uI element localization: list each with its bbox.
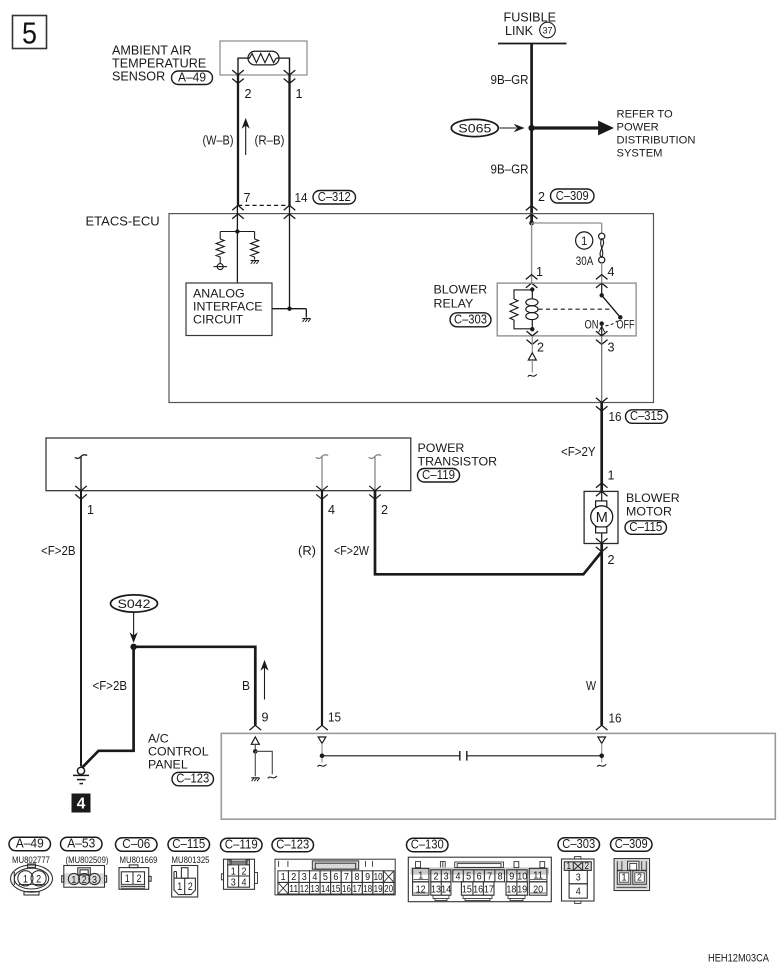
svg-text:1: 1 xyxy=(125,873,130,885)
relay pin 2 dangling branch xyxy=(531,336,533,353)
svg-text:2: 2 xyxy=(188,881,193,893)
svg-text:2: 2 xyxy=(537,340,544,355)
wire relay switch to pin 3 xyxy=(601,324,603,336)
connector arrows at ETACS power entry xyxy=(526,206,538,211)
connector arrows into blower relay xyxy=(526,275,538,280)
wire (R) transistor pin4 down xyxy=(321,491,323,726)
svg-text:C–119: C–119 xyxy=(225,838,258,852)
svg-text:ETACS-ECU: ETACS-ECU xyxy=(86,214,160,229)
svg-text:C–303: C–303 xyxy=(562,837,595,851)
junction node S042 xyxy=(130,644,136,650)
svg-text:1: 1 xyxy=(177,881,182,893)
svg-text:1: 1 xyxy=(296,86,303,101)
wire 9B-GR from fusible link xyxy=(530,43,533,223)
svg-text:18: 18 xyxy=(506,884,516,896)
arrow from S065 to junction xyxy=(500,127,517,129)
svg-text:S065: S065 xyxy=(458,121,491,135)
motor brush top xyxy=(596,501,607,507)
svg-text:17: 17 xyxy=(484,884,494,896)
connector label C-130 strip xyxy=(407,838,449,852)
svg-text:C–115: C–115 xyxy=(172,837,205,851)
connector face C-123 xyxy=(275,859,395,895)
connector label C-303 relay xyxy=(450,313,491,327)
svg-text:2: 2 xyxy=(538,189,545,204)
svg-text:<F>2Y: <F>2Y xyxy=(561,444,596,459)
svg-text:2: 2 xyxy=(291,872,296,883)
motor brush bottom xyxy=(596,527,607,533)
connector label C-115 strip xyxy=(168,838,210,852)
wire pin14 internal xyxy=(289,205,291,308)
svg-text:3: 3 xyxy=(92,874,97,886)
node pin 15 xyxy=(320,754,325,759)
node pin7 branch xyxy=(235,229,239,233)
svg-text:4: 4 xyxy=(77,796,86,813)
svg-text:SYSTEM: SYSTEM xyxy=(617,148,663,160)
connector label C-123 panel xyxy=(172,772,214,786)
connector face C-309 xyxy=(614,859,649,891)
panel capacitor wire left xyxy=(322,755,460,757)
svg-text:16: 16 xyxy=(473,884,483,896)
svg-text:2: 2 xyxy=(245,86,252,101)
svg-text:2: 2 xyxy=(82,874,87,886)
svg-text:9B–GR: 9B–GR xyxy=(491,73,529,87)
svg-text:3: 3 xyxy=(608,340,615,355)
svg-text:C–315: C–315 xyxy=(630,409,663,423)
svg-text:4: 4 xyxy=(576,886,581,898)
node pin14 ground branch xyxy=(287,307,291,311)
svg-text:C–312: C–312 xyxy=(318,190,351,204)
svg-text:2: 2 xyxy=(381,502,388,517)
svg-text:A/C: A/C xyxy=(148,732,169,746)
wire junction to fuse xyxy=(532,222,602,224)
svg-text:3: 3 xyxy=(231,877,236,889)
relay mechanical link dashed xyxy=(539,308,610,310)
svg-text:1: 1 xyxy=(566,861,571,872)
wire pin 9 branch xyxy=(255,751,272,774)
power transistor C-119 box xyxy=(46,438,411,491)
A/C control panel C-123 box xyxy=(221,733,775,819)
svg-text:14: 14 xyxy=(441,884,451,896)
svg-text:11: 11 xyxy=(289,884,298,895)
transistor output hook pin 2 xyxy=(369,455,381,459)
blower relay C-303 box xyxy=(497,283,636,336)
svg-text:15: 15 xyxy=(328,710,341,725)
connector face C-303 xyxy=(562,857,595,904)
svg-text:<F>2W: <F>2W xyxy=(334,543,369,558)
svg-text:16: 16 xyxy=(609,711,622,726)
svg-text:MU801669: MU801669 xyxy=(120,855,158,865)
connector label C-309 xyxy=(551,189,595,203)
svg-text:A–49: A–49 xyxy=(16,837,44,851)
svg-text:1: 1 xyxy=(231,865,236,877)
svg-text:3: 3 xyxy=(302,872,307,883)
connector dashed line C-312 xyxy=(238,204,290,206)
svg-text:6: 6 xyxy=(477,870,482,882)
svg-text:13: 13 xyxy=(431,884,441,896)
supply terminal symbol xyxy=(219,257,221,264)
svg-text:4: 4 xyxy=(456,870,461,882)
panel capacitor wire right xyxy=(467,755,602,757)
current arrow at B xyxy=(264,666,266,700)
thermistor element xyxy=(248,51,279,65)
svg-text:C–130: C–130 xyxy=(411,838,444,852)
connector face A-53 xyxy=(62,866,107,888)
wire <F>2W transistor pin2 down xyxy=(375,491,601,575)
svg-text:(W–B): (W–B) xyxy=(203,133,234,148)
motor armature M xyxy=(591,506,613,528)
svg-text:PANEL: PANEL xyxy=(148,758,188,772)
svg-text:14: 14 xyxy=(295,190,308,205)
svg-text:SENSOR: SENSOR xyxy=(112,70,165,84)
svg-text:9: 9 xyxy=(509,870,514,882)
svg-text:17: 17 xyxy=(353,884,362,895)
resistor pull-up left xyxy=(216,239,224,257)
svg-text:1: 1 xyxy=(581,236,587,248)
page number 5 box xyxy=(13,16,47,49)
svg-text:S042: S042 xyxy=(118,597,151,611)
svg-text:2: 2 xyxy=(608,552,615,567)
svg-text:11: 11 xyxy=(533,869,543,881)
transistor output hook pin 4 xyxy=(316,455,328,459)
relay switch arm to OFF xyxy=(602,295,621,317)
svg-text:(R): (R) xyxy=(298,543,316,558)
analog interface circuit box xyxy=(186,283,272,336)
connector label C-123 strip xyxy=(272,838,314,852)
svg-text:1: 1 xyxy=(608,468,615,483)
svg-text:1: 1 xyxy=(281,872,286,883)
svg-text:4: 4 xyxy=(328,502,335,517)
svg-text:TRANSISTOR: TRANSISTOR xyxy=(418,455,498,469)
ground terminal G xyxy=(77,767,84,774)
wire pin 9 to ground xyxy=(254,751,256,776)
svg-text:1: 1 xyxy=(71,874,76,886)
svg-text:1: 1 xyxy=(622,872,627,884)
connector label C-303 strip xyxy=(558,838,600,852)
connector label C-115 motor xyxy=(625,521,667,535)
wire W blower motor to panel xyxy=(600,543,603,725)
svg-text:15: 15 xyxy=(462,884,472,896)
page reference 4 marker xyxy=(72,794,91,813)
relay switch common contact xyxy=(601,283,603,295)
svg-text:8: 8 xyxy=(355,872,360,883)
connector face C-06 xyxy=(119,865,151,889)
blower motor C-115 box xyxy=(584,491,618,543)
wire pin7 internal xyxy=(236,205,238,283)
svg-text:DISTRIBUTION: DISTRIBUTION xyxy=(617,135,696,147)
svg-text:9B–GR: 9B–GR xyxy=(491,163,529,177)
svg-text:37: 37 xyxy=(543,26,553,36)
wire to analog interface circuit xyxy=(272,308,290,310)
node power junction xyxy=(529,221,534,226)
svg-text:10: 10 xyxy=(517,870,527,882)
fuse number circle 1 xyxy=(576,232,593,249)
wire sensor pin 1 drop xyxy=(289,58,291,76)
wire junction to relay pin 1 xyxy=(531,223,533,283)
svg-text:M: M xyxy=(596,510,608,526)
svg-text:4: 4 xyxy=(312,872,317,883)
current direction arrow xyxy=(245,124,247,155)
svg-text:MU802777: MU802777 xyxy=(12,855,50,865)
svg-text:POWER: POWER xyxy=(418,441,465,455)
svg-text:2: 2 xyxy=(585,861,590,872)
transistor output hook pin 1 xyxy=(75,455,87,459)
connector arrows out of power transistor xyxy=(75,486,87,491)
wire S042 branch to pin 9 xyxy=(134,647,256,726)
svg-text:10: 10 xyxy=(374,872,383,883)
svg-text:CONTROL: CONTROL xyxy=(148,745,209,759)
svg-text:LINK: LINK xyxy=(505,24,534,38)
svg-text:ANALOG: ANALOG xyxy=(193,287,245,301)
node pin 9 xyxy=(253,749,258,754)
connector arrows out of relay pins 2 and 3 xyxy=(527,331,539,336)
svg-text:16: 16 xyxy=(609,409,622,424)
svg-text:1: 1 xyxy=(418,869,423,881)
connector label C-312 xyxy=(313,191,356,205)
svg-text:14: 14 xyxy=(321,884,330,895)
svg-text:BLOWER: BLOWER xyxy=(434,283,488,297)
svg-text:C–123: C–123 xyxy=(276,838,309,852)
wire <F>2B transistor pin1 down xyxy=(80,491,82,767)
svg-text:C–119: C–119 xyxy=(422,468,455,482)
svg-text:ON: ON xyxy=(585,320,599,332)
connector face C-115 xyxy=(172,866,198,898)
wire relay pin 3 to ECU output xyxy=(601,336,603,403)
svg-text:C–06: C–06 xyxy=(122,837,150,851)
svg-text:9: 9 xyxy=(262,710,269,725)
wire fuse to relay pin 4 xyxy=(601,263,603,283)
svg-text:3: 3 xyxy=(576,872,581,884)
svg-text:2: 2 xyxy=(137,873,142,885)
svg-text:7: 7 xyxy=(244,190,251,205)
fusible link number 37 circle xyxy=(540,22,556,38)
svg-text:1: 1 xyxy=(536,264,543,279)
svg-text:INTERFACE: INTERFACE xyxy=(193,300,263,314)
svg-text:1: 1 xyxy=(23,874,28,886)
svg-text:A–49: A–49 xyxy=(178,70,206,84)
connector label A-49 strip xyxy=(9,837,51,851)
svg-text:AMBIENT AIR: AMBIENT AIR xyxy=(112,44,192,58)
svg-text:19: 19 xyxy=(374,884,383,895)
relay ON contact xyxy=(600,321,604,325)
svg-text:1: 1 xyxy=(87,502,94,517)
panel pin 15 terminal triangle xyxy=(318,737,326,743)
svg-text:C–115: C–115 xyxy=(629,520,662,534)
svg-text:2: 2 xyxy=(637,872,642,884)
connector label C-309 strip xyxy=(611,838,653,852)
svg-text:12: 12 xyxy=(416,884,426,896)
svg-text:(MU802509): (MU802509) xyxy=(66,855,109,865)
capacitor xyxy=(459,751,461,761)
connector face A-49 xyxy=(11,864,53,895)
connector label C-119 transistor xyxy=(418,469,460,483)
motor internal wire xyxy=(601,491,603,500)
svg-text:7: 7 xyxy=(344,872,349,883)
wire <F>2Y ETACS to blower motor xyxy=(600,403,603,492)
ground chassis small right resistor xyxy=(254,257,256,260)
connector arrows into blower motor xyxy=(596,483,608,488)
panel pin 16 terminal triangle xyxy=(598,737,606,743)
svg-text:20: 20 xyxy=(533,884,543,896)
ambient air temperature sensor A-49 box xyxy=(220,41,307,75)
svg-text:B: B xyxy=(242,678,250,693)
svg-text:13: 13 xyxy=(310,884,319,895)
wire pin 2 internal xyxy=(374,456,376,490)
svg-text:C–309: C–309 xyxy=(615,837,648,851)
svg-text:C–303: C–303 xyxy=(454,313,487,327)
svg-text:<F>2B: <F>2B xyxy=(41,543,76,558)
svg-text:W: W xyxy=(586,678,596,693)
node pin 16 xyxy=(599,754,604,759)
arrow REFER TO POWER DISTRIBUTION SYSTEM xyxy=(534,126,599,129)
svg-text:5: 5 xyxy=(22,16,37,51)
svg-text:16: 16 xyxy=(342,884,351,895)
connector face C-130 xyxy=(408,857,551,902)
svg-text:C–309: C–309 xyxy=(556,189,589,203)
arrow from S042 to junction xyxy=(133,613,135,638)
svg-text:<F>2B: <F>2B xyxy=(93,678,128,693)
svg-text:3: 3 xyxy=(444,870,449,882)
svg-text:6: 6 xyxy=(333,872,338,883)
ground chassis internal xyxy=(302,318,310,320)
svg-text:MU801325: MU801325 xyxy=(172,855,210,865)
ETACS-ECU box xyxy=(169,214,654,403)
svg-text:CIRCUIT: CIRCUIT xyxy=(193,313,244,327)
fuse 1 30A xyxy=(599,233,605,239)
svg-text:8: 8 xyxy=(498,870,503,882)
wire to internal ground xyxy=(290,308,307,310)
connector label C-119 strip xyxy=(221,838,263,852)
svg-text:REFER TO: REFER TO xyxy=(617,109,673,121)
wire pin 4 internal xyxy=(321,456,323,490)
connector arrows out of blower motor pin 2 xyxy=(596,538,608,543)
svg-text:A–53: A–53 xyxy=(67,837,95,851)
connector label A-49 xyxy=(172,71,213,85)
svg-text:15: 15 xyxy=(331,884,340,895)
svg-text:MOTOR: MOTOR xyxy=(626,505,672,519)
svg-text:C–123: C–123 xyxy=(176,772,209,786)
wire S042 branch to ground xyxy=(82,647,133,768)
svg-text:18: 18 xyxy=(363,884,372,895)
splice S042 xyxy=(111,595,158,612)
svg-text:2: 2 xyxy=(242,865,247,877)
svg-text:7: 7 xyxy=(487,870,492,882)
svg-text:OFF: OFF xyxy=(617,320,635,332)
wire pin 1 internal xyxy=(80,456,82,490)
wire sensor pin 2 drop xyxy=(237,58,239,76)
svg-text:(R–B): (R–B) xyxy=(255,133,285,148)
resistor pull-down right xyxy=(251,239,259,257)
svg-text:12: 12 xyxy=(300,884,309,895)
wire branch to pull resistors xyxy=(220,231,254,233)
connector label C-06 strip xyxy=(116,838,158,852)
svg-text:RELAY: RELAY xyxy=(434,297,474,311)
svg-text:9: 9 xyxy=(365,872,370,883)
connector label C-315 xyxy=(626,410,668,424)
connector face C-119 xyxy=(221,859,257,889)
panel pin 9 terminal triangle xyxy=(251,737,259,744)
svg-text:TEMPERATURE: TEMPERATURE xyxy=(112,57,206,71)
wire sensor leads xyxy=(238,57,250,59)
relay coil parallel resistor xyxy=(514,290,532,299)
svg-text:19: 19 xyxy=(517,884,527,896)
svg-text:4: 4 xyxy=(608,264,615,279)
svg-text:2: 2 xyxy=(36,874,41,886)
splice S065 xyxy=(451,119,498,136)
fusible link bus bar xyxy=(498,43,567,45)
relay coil xyxy=(530,287,534,291)
svg-text:30A: 30A xyxy=(576,256,594,268)
svg-text:5: 5 xyxy=(323,872,328,883)
connector arrows into A/C control panel xyxy=(250,725,262,730)
connector arrows at ETACS pins 7 and 14 xyxy=(232,205,244,210)
svg-text:5: 5 xyxy=(466,870,471,882)
connector arrows at ETACS output 16 xyxy=(596,398,608,403)
svg-text:20: 20 xyxy=(384,884,393,895)
junction node S065 xyxy=(528,125,534,131)
svg-text:4: 4 xyxy=(242,877,247,889)
svg-text:BLOWER: BLOWER xyxy=(626,491,680,505)
svg-text:HEH12M03CA: HEH12M03CA xyxy=(708,953,770,965)
svg-text:2: 2 xyxy=(434,870,439,882)
connector arrows at sensor A-49 pins xyxy=(232,70,244,75)
svg-text:POWER: POWER xyxy=(617,122,659,134)
connector label A-53 strip xyxy=(61,837,103,851)
